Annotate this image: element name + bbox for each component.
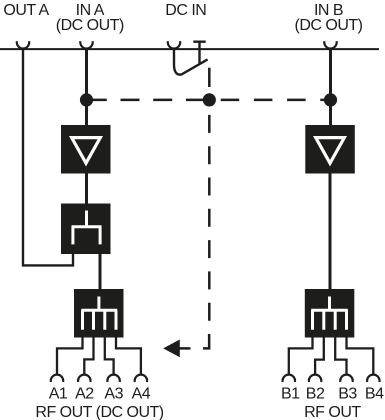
junction node A [80,93,93,106]
svg-text:RF OUT (DC OUT): RF OUT (DC OUT) [35,404,163,420]
svg-text:DC IN: DC IN [165,2,206,19]
wire B1 [289,338,313,375]
svg-text:A2: A2 [75,386,94,403]
junction node B [324,93,337,106]
DC arrow tail [180,347,191,350]
amplifier A triangle [72,138,101,164]
wire amp A to splitter [85,174,88,204]
svg-text:B2: B2 [306,386,325,403]
4-way splitter A symbol [81,297,117,330]
wire B3 [335,338,346,375]
connector IN B [324,41,336,48]
wire A4 [116,338,141,375]
port A3 [107,375,119,382]
svg-text:(DC OUT): (DC OUT) [295,17,363,34]
dashed DC corner [203,334,209,348]
dashed DC stub [208,68,211,87]
2-way splitter box [61,204,111,255]
connector OUT A [17,41,29,48]
port B3 [340,375,352,382]
dashed DC feed down [208,115,211,321]
amplifier B box [305,125,355,174]
svg-text:A4: A4 [132,386,151,403]
wire A1 [57,338,83,375]
dashed DC bus left [88,99,205,102]
svg-text:B1: B1 [281,386,300,403]
connector IN A [80,41,92,48]
port A2 [78,375,90,382]
port B2 [309,375,321,382]
port B1 [283,375,295,382]
junction node DC [203,93,216,106]
DC jack fixed terminal [193,42,205,64]
svg-text:(DC OUT): (DC OUT) [56,17,124,34]
2-way splitter symbol [72,211,102,245]
wire A3 [105,338,114,375]
top bus wire [0,48,379,50]
wire amp B to 4-way [329,174,332,290]
wire B4 [347,338,374,375]
wire B2 [315,338,324,375]
4-way splitter A box [74,289,124,338]
svg-text:A3: A3 [104,386,123,403]
wire splitter to 4-way A [99,254,102,289]
4-way splitter B box [305,289,355,338]
DC arrow head [163,340,180,358]
svg-text:OUT A: OUT A [3,2,49,19]
svg-text:RF OUT: RF OUT [304,404,361,420]
svg-text:B4: B4 [365,386,384,403]
amplifier B triangle [316,138,345,164]
svg-text:A1: A1 [49,386,68,403]
port A4 [135,375,147,382]
wire IN A [85,49,88,125]
4-way splitter B symbol [311,297,348,330]
svg-text:B3: B3 [338,386,357,403]
port B4 [367,375,379,382]
port A1 [51,375,63,382]
connector DC IN [168,41,180,48]
wire A2 [84,338,93,375]
DC jack plug contact [174,50,208,75]
wire OUT A [23,49,73,265]
wire IN B [329,49,332,125]
amplifier A box [61,125,111,174]
dashed DC bus right [221,99,325,102]
